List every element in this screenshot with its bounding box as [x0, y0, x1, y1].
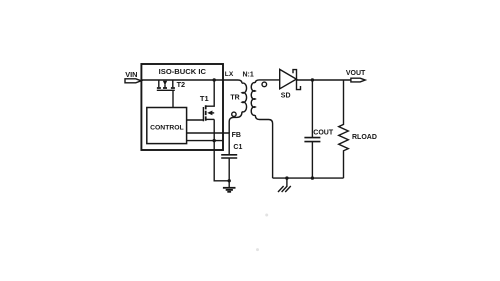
svg-text:T2: T2	[177, 80, 186, 89]
svg-text:VIN: VIN	[125, 70, 137, 79]
svg-text:ISO-BUCK IC: ISO-BUCK IC	[159, 67, 207, 76]
svg-text:FB: FB	[232, 132, 241, 139]
svg-text:CONTROL: CONTROL	[150, 125, 184, 132]
svg-text:C1: C1	[233, 144, 242, 151]
svg-text:N:1: N:1	[243, 71, 254, 78]
svg-text:SD: SD	[281, 92, 291, 99]
svg-text:T1: T1	[200, 94, 209, 103]
svg-text:COUT: COUT	[313, 130, 334, 137]
svg-text:TR: TR	[230, 94, 239, 101]
svg-text:RLOAD: RLOAD	[352, 134, 377, 141]
svg-text:LX: LX	[225, 71, 234, 78]
svg-text:VOUT: VOUT	[346, 70, 366, 77]
